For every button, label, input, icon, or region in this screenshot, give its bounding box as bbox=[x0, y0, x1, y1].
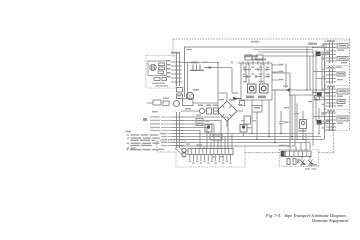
resistor R13 bbox=[293, 159, 296, 165]
component boxes above relay block bbox=[245, 55, 252, 60]
wire horizontal y95 bbox=[290, 94, 313, 96]
label C6 bbox=[324, 93, 330, 95]
capacitor C103 bbox=[162, 78, 167, 81]
wire horizontal y90 bbox=[272, 89, 325, 91]
right group dashed left edge bbox=[324, 41, 326, 131]
capacitor C3 bbox=[177, 94, 183, 99]
wire riser x290 bbox=[289, 73, 291, 103]
terminal strip TB1 bbox=[281, 151, 311, 157]
wires strip risers bbox=[290, 134, 306, 152]
leads into grommets bbox=[175, 147, 182, 155]
resistor R101 bbox=[159, 63, 165, 66]
transistor Q3 bbox=[308, 157, 314, 166]
wire colour labels column bbox=[150, 116, 167, 146]
boxed meter M1 bbox=[300, 120, 307, 129]
power rail riser x313 bbox=[312, 50, 314, 146]
capacitor C1 box bbox=[183, 99, 194, 106]
wire stub left bbox=[147, 102, 153, 104]
right connector columns bbox=[326, 42, 336, 131]
resistor R12 bbox=[287, 159, 290, 165]
bottom pin labels bbox=[189, 161, 232, 164]
risers from relay area bbox=[252, 90, 295, 146]
harness upper bends into connector bbox=[200, 117, 228, 149]
transistor Q2 bbox=[300, 157, 306, 166]
misc tiny reference labels bbox=[152, 41, 347, 170]
wire relay right pins bbox=[272, 65, 283, 90]
label C7 bbox=[324, 121, 330, 123]
label block top A bbox=[244, 55, 258, 57]
motor assembly inner box bbox=[148, 61, 167, 76]
relay block top pin row bbox=[241, 61, 272, 65]
outer dashed enclosure step edge bbox=[333, 124, 335, 153]
wire riser x292 bbox=[291, 95, 293, 140]
figure caption line 1 bbox=[266, 213, 281, 218]
harness wire y142 bbox=[181, 143, 310, 149]
harness wire y146 bbox=[181, 145, 295, 147]
connector P1/J1 left column lower bbox=[172, 112, 184, 148]
right group dashed top edge bbox=[325, 40, 350, 42]
grommet circles bbox=[182, 148, 186, 152]
wire stubs label column to connector bbox=[161, 117, 172, 146]
pin labels left of right connectors bbox=[322, 45, 325, 129]
label TB1 bbox=[279, 145, 286, 147]
bottom connector pins bbox=[190, 155, 231, 162]
wire vertical drop A bbox=[217, 63, 219, 109]
arrow left to mechanism bbox=[234, 97, 242, 100]
potentiometer R3 bbox=[199, 108, 204, 113]
label P1 J1 above bbox=[171, 52, 179, 54]
switch box S6 bbox=[337, 57, 348, 61]
switch box S7 bbox=[337, 72, 345, 76]
wire y73 bbox=[272, 72, 290, 74]
label C11 bbox=[322, 112, 327, 114]
mid components: capacitor C10 bbox=[279, 111, 283, 134]
safety switch box S5 bbox=[337, 44, 348, 49]
resistor R2 bbox=[163, 101, 169, 106]
wires into right connector bbox=[313, 48, 326, 124]
main chassis solid box top bbox=[184, 46, 327, 48]
bottom connector J2 dashed box bbox=[176, 146, 245, 167]
wire top bus 2 bbox=[263, 55, 316, 57]
label block top B bbox=[251, 58, 266, 60]
resistor R4 bbox=[207, 108, 212, 114]
capacitor C11 bbox=[318, 108, 320, 134]
label S1 bbox=[191, 62, 199, 64]
harness wires rows upper bbox=[181, 117, 228, 131]
arrow right to mechanism bbox=[283, 89, 290, 92]
label in amp box bbox=[309, 164, 317, 166]
power rail riser x316 bbox=[315, 50, 317, 122]
resistor R102 bbox=[159, 67, 165, 70]
electrolytic capacitor C5 bbox=[316, 52, 321, 57]
solenoid L1 bbox=[248, 84, 257, 93]
wire motor row bbox=[193, 102, 218, 104]
amplifier board dashed box bbox=[280, 150, 319, 167]
label M1 bbox=[299, 130, 307, 132]
connector end block bbox=[281, 151, 285, 157]
label pot row bbox=[198, 105, 203, 107]
play lamp DS2 bbox=[240, 125, 247, 133]
wire pot row bbox=[181, 110, 207, 112]
wire riser x310 bbox=[309, 56, 311, 90]
component box R8 bbox=[210, 134, 222, 140]
figure caption line 2 bbox=[312, 218, 348, 223]
wire switch arm bbox=[204, 67, 212, 68]
wire riser x187.5 bbox=[187, 63, 189, 99]
bottom connector strip bbox=[188, 149, 233, 155]
wire to relay block stub bbox=[238, 62, 241, 64]
dashed segment lower-left bbox=[157, 141, 186, 152]
diode CR2 bbox=[240, 101, 245, 106]
label above strip bbox=[196, 144, 202, 146]
relay block inner column K1 bbox=[246, 63, 249, 83]
outer dashed enclosure bottom edge bbox=[157, 151, 334, 154]
wire block bottom drop bbox=[252, 100, 262, 139]
solenoid box L3 bbox=[337, 89, 348, 94]
switch S1 bbox=[190, 65, 204, 71]
wire right riser bbox=[285, 64, 287, 88]
label under L2 bbox=[258, 96, 266, 99]
notes text block bbox=[126, 131, 161, 150]
relay contact row 1 bbox=[243, 68, 270, 71]
wire meter leads bbox=[302, 111, 304, 140]
switch box S8 bbox=[337, 100, 345, 104]
capstan motor circuit label box bbox=[153, 100, 161, 105]
outer dashed enclosure left edge bbox=[172, 39, 174, 57]
label under motor assembly bbox=[152, 83, 165, 84]
connector label P5 bbox=[143, 118, 147, 121]
wire lamp leads bbox=[209, 132, 244, 136]
relay block K1/K2 outline bbox=[241, 63, 272, 100]
harness bends into connector bbox=[204, 134, 232, 149]
electrolytic capacitor C6 bbox=[317, 92, 322, 97]
motor assembly B1 dashed box bbox=[146, 56, 176, 89]
pin labels P1 upper bbox=[167, 60, 171, 77]
harness wire y136 bbox=[181, 136, 321, 138]
wire riser x322 bbox=[321, 52, 323, 90]
label C5 bbox=[323, 52, 329, 54]
harness wire y133 bbox=[181, 133, 313, 135]
solenoid L2 bbox=[260, 84, 269, 93]
right dashed separators bbox=[325, 66, 350, 131]
labels above right connectors bbox=[327, 40, 335, 112]
capacitor C2 bbox=[177, 88, 183, 93]
main chassis inner top edge bbox=[253, 49, 313, 51]
wire riser x297 bbox=[296, 103, 298, 140]
capacitor C101 bbox=[158, 71, 164, 74]
motor B2 bbox=[174, 101, 180, 107]
wire top bus 1 bbox=[258, 51, 313, 53]
labels relay right pins bbox=[279, 64, 284, 81]
capacitor C102 bbox=[154, 78, 160, 81]
label Q1 bbox=[193, 89, 199, 91]
record lamp DS1 bbox=[205, 125, 212, 133]
wire vertical drop B bbox=[212, 68, 239, 94]
label C10 bbox=[284, 122, 289, 124]
outer dashed enclosure right edge bbox=[349, 39, 351, 130]
relay block inner column K2 bbox=[261, 63, 264, 83]
electrolytic capacitor C7 bbox=[317, 120, 322, 125]
wire top feed bbox=[182, 62, 218, 64]
harness wire y139 bbox=[181, 139, 325, 140]
label inside assembly bbox=[161, 75, 165, 76]
main chassis solid box left bbox=[184, 47, 186, 97]
motor B1 bbox=[150, 64, 156, 70]
bridge rectifier CR1 bbox=[217, 101, 237, 121]
label box left bbox=[196, 119, 203, 126]
solenoid box L4 bbox=[337, 116, 348, 121]
label under L1 bbox=[246, 96, 254, 99]
label CR1 bbox=[229, 99, 236, 101]
transistor Q1 bbox=[186, 92, 193, 99]
connector P1/J1 left column upper bbox=[171, 52, 182, 86]
wire bridge stubs bbox=[213, 93, 243, 127]
resistor box R9 bbox=[244, 116, 251, 124]
junction dots bbox=[217, 47, 319, 143]
resistor R10 bottom box bbox=[252, 106, 262, 113]
relay contact row 2 bbox=[243, 75, 270, 78]
wire riser x307 bbox=[306, 47, 308, 90]
top pin diamonds bbox=[242, 62, 268, 63]
main chassis solid box right bbox=[324, 47, 326, 139]
small comp x315 bbox=[315, 96, 320, 101]
resistor R5 bbox=[214, 108, 219, 114]
outer dashed enclosure top edge bbox=[173, 38, 350, 40]
